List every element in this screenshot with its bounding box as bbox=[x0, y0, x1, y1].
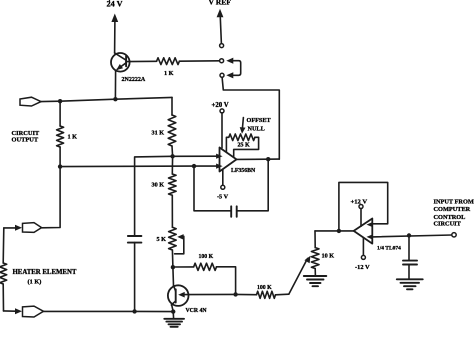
capacitor C2 bbox=[128, 236, 141, 311]
wire output U2 bbox=[315, 229, 354, 233]
ground G2 bbox=[304, 276, 327, 286]
wire feedback right bbox=[237, 159, 269, 211]
svg-text:100 K: 100 K bbox=[257, 285, 272, 291]
svg-text:1 K: 1 K bbox=[68, 134, 78, 141]
label input from computer bbox=[434, 198, 474, 227]
switch selector arrows bbox=[226, 58, 240, 79]
node gate junction bbox=[171, 265, 175, 286]
resistor 1K left bbox=[57, 101, 78, 166]
wire emitter rail bbox=[41, 97, 172, 103]
capacitor C1 bbox=[231, 206, 237, 217]
svg-text:2N2222A: 2N2222A bbox=[122, 77, 146, 83]
svg-text:1 K: 1 K bbox=[164, 70, 174, 77]
svg-text:INPUT FROM: INPUT FROM bbox=[434, 198, 474, 205]
svg-text:+20 V: +20 V bbox=[212, 102, 229, 109]
wire collector to +24V arrow bbox=[111, 14, 118, 54]
svg-text:100 K: 100 K bbox=[199, 254, 214, 260]
op-amp U1 LF356BN bbox=[216, 148, 256, 175]
svg-text:-12 V: -12 V bbox=[355, 264, 370, 271]
svg-text:COMPUTER: COMPUTER bbox=[434, 206, 471, 213]
svg-text:CIRCUIT: CIRCUIT bbox=[434, 221, 462, 228]
svg-text:31 K: 31 K bbox=[152, 130, 165, 137]
wire bottom rail bbox=[44, 309, 176, 314]
resistor 30K bbox=[152, 156, 177, 227]
terminal -5V bbox=[217, 169, 229, 200]
wire non-inverting input bbox=[135, 154, 220, 236]
power V REF label bbox=[209, 0, 232, 7]
ground G3 bbox=[397, 279, 423, 289]
wire gate to VCR bbox=[178, 292, 235, 298]
svg-text:NULL: NULL bbox=[248, 126, 265, 133]
heater element resistor bbox=[0, 228, 77, 311]
potentiometer 5K bbox=[157, 227, 184, 267]
power +24V label bbox=[107, 0, 123, 9]
svg-text:10 K: 10 K bbox=[322, 253, 335, 260]
transistor Q2 VCR 4N bbox=[168, 285, 208, 314]
svg-text:HEATER ELEMENT: HEATER ELEMENT bbox=[13, 269, 77, 276]
svg-text:1/4 TL074: 1/4 TL074 bbox=[377, 246, 401, 252]
ground G1 bbox=[164, 312, 184, 327]
terminal +12V bbox=[351, 199, 368, 227]
resistor 1K base bbox=[157, 58, 220, 77]
svg-text:+12 V: +12 V bbox=[351, 199, 368, 206]
svg-text:-5 V: -5 V bbox=[217, 194, 229, 201]
svg-text:VCR 4N: VCR 4N bbox=[186, 308, 208, 314]
svg-text:5 K: 5 K bbox=[157, 236, 167, 243]
resistor 31K bbox=[152, 97, 176, 156]
svg-text:LF356BN: LF356BN bbox=[231, 168, 256, 174]
wire feedback U2 box bbox=[339, 182, 388, 231]
svg-text:(1 K): (1 K) bbox=[28, 279, 42, 286]
wire inverting input bbox=[58, 164, 220, 169]
svg-text:OUTPUT: OUTPUT bbox=[12, 137, 39, 144]
potentiometer 25K bbox=[226, 134, 258, 157]
switch terminals bbox=[220, 44, 224, 78]
svg-text:OFFSET: OFFSET bbox=[247, 117, 272, 124]
transistor Q1 2N2222A bbox=[111, 53, 146, 99]
potentiometer 10K bbox=[311, 231, 334, 276]
resistor 100K first bbox=[173, 254, 238, 297]
tag circuit output bbox=[12, 97, 42, 143]
terminal +20V bbox=[212, 102, 229, 148]
wire switch bottom to feedback bbox=[222, 77, 279, 159]
wire non-inverting input U2 bbox=[372, 233, 456, 238]
wire output U1 bbox=[237, 157, 280, 161]
offset null label + wiper arrow bbox=[240, 117, 272, 134]
svg-text:30 K: 30 K bbox=[152, 182, 165, 189]
resistor 100K second bbox=[236, 256, 311, 299]
op-amp U2 1/4 TL074 bbox=[354, 219, 401, 252]
wire switch to V REF arrow bbox=[217, 9, 224, 44]
wire feedback left bbox=[194, 166, 231, 211]
terminal -12V bbox=[355, 238, 370, 271]
capacitor C3 bbox=[403, 236, 417, 279]
svg-text:V REF: V REF bbox=[209, 0, 232, 7]
wire tag2 up to summing node bbox=[42, 167, 61, 228]
wire base bbox=[126, 60, 157, 62]
tag heater top bbox=[4, 223, 42, 233]
tag heater bottom bbox=[4, 306, 44, 317]
svg-text:25 K: 25 K bbox=[238, 143, 251, 149]
